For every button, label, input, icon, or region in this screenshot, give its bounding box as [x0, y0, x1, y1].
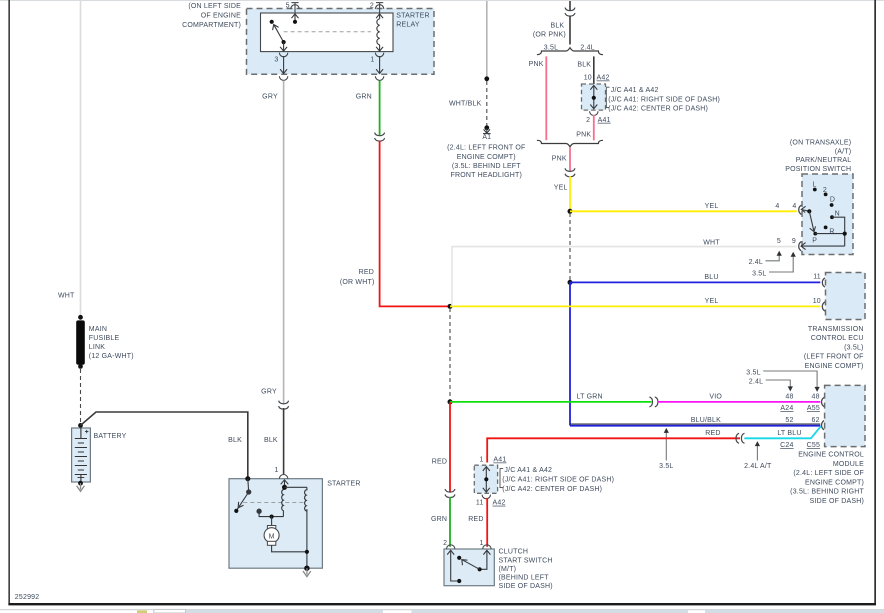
- PNP wiper blade: [809, 211, 815, 231]
- svg-text:9: 9: [792, 238, 796, 245]
- node starter motor tap: [270, 515, 274, 519]
- wire BLU to TCM pin11: [570, 281, 820, 283]
- wire BLU vertical: [569, 282, 571, 425]
- merge brace: [537, 140, 603, 147]
- wire PNK below J/C: [593, 115, 595, 140]
- bottom strip icon: [137, 610, 147, 613]
- PNP contact 2: [824, 193, 828, 197]
- clutch start switch box: [444, 549, 494, 586]
- label J/C A41 & A42 bottom text: [500, 468, 503, 487]
- svg-text:(3.5L: BEHIND RIGHT: (3.5L: BEHIND RIGHT: [790, 489, 864, 496]
- svg-text:MODULE: MODULE: [833, 461, 864, 468]
- node starter coils junction: [282, 485, 287, 490]
- PNP pin9 arrow: [801, 243, 806, 250]
- svg-text:GRY: GRY: [261, 389, 277, 396]
- svg-text:(M/T): (M/T): [499, 566, 517, 573]
- svg-text:YEL: YEL: [705, 298, 719, 305]
- PNP internal wiring N to pin9: [802, 217, 845, 246]
- svg-text:2.4L: 2.4L: [580, 44, 594, 51]
- starter hold-in coil: [305, 487, 307, 511]
- clutch pin1 internal path: [482, 550, 491, 569]
- svg-text:(12 GA-WHT): (12 GA-WHT): [89, 353, 134, 360]
- svg-text:10: 10: [584, 75, 592, 82]
- svg-text:VIO: VIO: [709, 394, 722, 401]
- svg-text:GRY: GRY: [262, 94, 278, 101]
- relay pin1 below-box bracket: [375, 76, 383, 80]
- svg-text:A1: A1: [482, 134, 491, 141]
- battery: [72, 427, 91, 482]
- svg-text:GRN: GRN: [431, 516, 447, 523]
- svg-text:SIDE OF DASH): SIDE OF DASH): [810, 498, 864, 505]
- svg-text:(2.4L: LEFT SIDE OF: (2.4L: LEFT SIDE OF: [793, 470, 864, 477]
- svg-text:L: L: [813, 181, 817, 188]
- relay pin3 internal arrow: [280, 42, 287, 51]
- connector RED-GRN inline: [445, 489, 455, 498]
- wire GRY relay pin3 down: [283, 81, 285, 405]
- wire RED relay to splice: [380, 141, 448, 307]
- ground battery: [77, 483, 85, 491]
- svg-text:(J/C A41: RIGHT SIDE OF DASH): (J/C A41: RIGHT SIDE OF DASH): [502, 476, 614, 483]
- svg-text:C55: C55: [807, 442, 820, 449]
- J/C A42 exit bracket: [590, 111, 598, 115]
- clutch entry arc pin2: [447, 545, 455, 549]
- svg-text:N: N: [835, 211, 840, 218]
- svg-text:(J/C A41: RIGHT SIDE OF DASH): (J/C A41: RIGHT SIDE OF DASH): [608, 96, 720, 103]
- relay coil: [377, 19, 380, 45]
- node starter ground: [304, 566, 309, 571]
- ECM pin52/62 bracket: [822, 421, 825, 430]
- relay pin3 exit arrow: [280, 56, 287, 74]
- svg-text:PNK: PNK: [576, 131, 591, 138]
- node RED-YEL splice: [448, 304, 453, 309]
- svg-text:1: 1: [275, 467, 279, 474]
- wire PNK merged: [569, 147, 571, 171]
- svg-text:P: P: [812, 238, 817, 245]
- svg-text:RED: RED: [432, 459, 447, 466]
- svg-text:TRANSMISSION: TRANSMISSION: [808, 326, 864, 333]
- svg-text:252992: 252992: [15, 594, 40, 601]
- bottom strip bar 3: [705, 610, 884, 613]
- PNP wiper pivot: [807, 209, 811, 213]
- svg-text:BLK: BLK: [264, 437, 278, 444]
- svg-text:(OR PNK): (OR PNK): [533, 32, 566, 39]
- svg-text:GRN: GRN: [356, 94, 372, 101]
- wire LT BLU 2.4L A/T: [744, 426, 821, 438]
- svg-text:LT GRN: LT GRN: [577, 394, 603, 401]
- clutch pin2 internal path: [447, 550, 457, 581]
- frame top hairline: [0, 0, 884, 1]
- svg-text:M: M: [269, 534, 275, 541]
- svg-text:YEL: YEL: [554, 185, 568, 192]
- svg-text:ENGINE COMPT): ENGINE COMPT): [457, 154, 516, 161]
- wire WHT/BLK: [486, 1, 488, 77]
- wire BLK battery to starter: [81, 412, 248, 477]
- svg-text:2.4L: 2.4L: [749, 259, 763, 266]
- clutch contact upper: [457, 556, 461, 560]
- wire GRN relay pin1 down: [379, 81, 381, 136]
- TCM pin10 bracket: [822, 302, 825, 311]
- svg-text:WHT/BLK: WHT/BLK: [449, 100, 482, 107]
- svg-text:J/C A41 & A42: J/C A41 & A42: [611, 87, 659, 94]
- svg-text:5: 5: [286, 3, 290, 10]
- svg-text:1: 1: [480, 457, 484, 464]
- svg-text:4: 4: [792, 203, 796, 210]
- svg-text:A41: A41: [598, 117, 611, 124]
- svg-text:RELAY: RELAY: [396, 22, 420, 29]
- svg-text:(ON LEFT SIDE: (ON LEFT SIDE: [188, 3, 241, 10]
- node fusible link top: [78, 315, 83, 320]
- connector BLK top inline: [565, 8, 575, 17]
- wire RED below J/C A41: [486, 498, 488, 547]
- fusible link F1: [76, 320, 85, 364]
- svg-text:52: 52: [785, 417, 793, 424]
- svg-text:1: 1: [370, 57, 374, 64]
- relay pin5 contact: [293, 20, 297, 24]
- node PNP internal junction: [843, 232, 847, 236]
- svg-text:2: 2: [443, 540, 447, 547]
- svg-text:2.4L: 2.4L: [749, 378, 763, 385]
- node LT GRN junction: [448, 399, 453, 404]
- wire RED to clutch circuit: [487, 438, 740, 462]
- node A1: [484, 125, 489, 130]
- starter mechanical link dashed: [243, 502, 306, 504]
- relay pin1 exit bracket: [375, 53, 383, 57]
- relay switch contact: [270, 20, 274, 24]
- svg-text:(3.5L: BEHIND LEFT: (3.5L: BEHIND LEFT: [452, 163, 521, 170]
- PNP contact R: [824, 226, 828, 230]
- starter pull-in coil entry arrow: [281, 480, 289, 490]
- wire GRN to clutch switch: [449, 497, 451, 547]
- node WHT/BLK junction: [484, 76, 489, 81]
- wire LT GRN: [450, 401, 652, 403]
- svg-text:(2.4L: LEFT FRONT OF: (2.4L: LEFT FRONT OF: [447, 145, 525, 152]
- svg-text:R: R: [829, 228, 834, 235]
- svg-text:(J/C A42: CENTER OF DASH): (J/C A42: CENTER OF DASH): [608, 106, 708, 113]
- svg-text:ENGINE COMPT): ENGINE COMPT): [805, 363, 864, 370]
- transmission control ECU box: [826, 273, 866, 320]
- svg-text:A55: A55: [807, 405, 820, 412]
- wire YEL to TCM pin10: [450, 305, 820, 307]
- svg-text:ENGINE CONTROL: ENGINE CONTROL: [798, 452, 864, 459]
- clutch switch pivot: [478, 567, 482, 571]
- svg-text:2: 2: [370, 3, 374, 10]
- svg-text:PNK: PNK: [552, 155, 567, 162]
- svg-text:1: 1: [480, 540, 484, 547]
- svg-text:MAIN: MAIN: [89, 326, 107, 333]
- clutch switch blade: [462, 560, 480, 570]
- svg-text:LINK: LINK: [89, 344, 105, 351]
- starter solenoid contact: [257, 509, 283, 516]
- svg-text:WHT: WHT: [58, 293, 75, 300]
- svg-text:48: 48: [812, 394, 820, 401]
- svg-text:5: 5: [777, 238, 781, 245]
- frame left border: [8, 0, 10, 605]
- wire WHT to PNP pin9: [452, 247, 797, 307]
- svg-text:CONTROL ECU: CONTROL ECU: [811, 335, 864, 342]
- starter ground path: [306, 509, 308, 568]
- svg-text:A42: A42: [493, 500, 506, 507]
- svg-text:STARTER: STARTER: [396, 13, 429, 20]
- wire YEL to PNP pin4: [570, 210, 797, 212]
- ECM pin48 bracket: [822, 397, 825, 406]
- J/C A42 internal: [590, 85, 597, 108]
- wire BLU/BLK to ECM: [570, 425, 820, 427]
- node battery negative: [78, 481, 83, 486]
- J/C A41 exit bracket: [482, 495, 490, 499]
- svg-text:START SWITCH: START SWITCH: [499, 557, 553, 564]
- svg-text:(OR WHT): (OR WHT): [340, 279, 375, 286]
- svg-text:(3.5L): (3.5L): [844, 344, 864, 351]
- relay switch blade: [273, 25, 284, 43]
- PNP contact L: [813, 188, 817, 192]
- junction connector J/C A42 box: [582, 84, 606, 110]
- svg-text:3: 3: [274, 57, 278, 64]
- svg-text:BLK: BLK: [577, 62, 591, 69]
- starter motor M: [264, 517, 307, 552]
- starter relay outer box: [247, 9, 435, 75]
- svg-text:LT BLU: LT BLU: [777, 430, 801, 437]
- relay pin2 internal arrow: [376, 14, 383, 19]
- node BLU junction: [568, 280, 573, 285]
- svg-text:(LEFT FRONT OF: (LEFT FRONT OF: [804, 354, 864, 361]
- terminal A1 symbol: [483, 128, 491, 134]
- svg-text:C24: C24: [780, 442, 793, 449]
- relay pin5 internal arrow: [292, 14, 299, 22]
- clutch entry arc pin1: [483, 545, 491, 549]
- svg-text:3.5L: 3.5L: [659, 463, 673, 470]
- svg-text:(BEHIND LEFT: (BEHIND LEFT: [499, 575, 550, 582]
- PNP contact D: [830, 203, 834, 207]
- wire dashed fusible link to battery: [80, 369, 82, 423]
- PNP pin4 wiper arrow: [801, 206, 809, 212]
- split brace 3.5L/2.4L: [537, 48, 603, 55]
- relay pin3 exit bracket: [279, 53, 287, 57]
- pin 2 stub: [375, 3, 383, 13]
- pin 5 stub: [291, 3, 299, 13]
- relay pin1 internal arrow: [376, 45, 383, 51]
- relay switch pivot: [282, 40, 286, 44]
- frame right border: [874, 0, 876, 605]
- svg-text:11: 11: [476, 500, 484, 507]
- wire dashed YEL to BLU junction: [569, 213, 571, 280]
- starter entry arc pin1: [279, 475, 287, 479]
- svg-text:PARK/NEUTRAL: PARK/NEUTRAL: [796, 157, 852, 164]
- svg-text:(A/T): (A/T): [835, 148, 852, 155]
- svg-text:4: 4: [775, 203, 779, 210]
- bottom strip bar 1: [186, 610, 383, 613]
- svg-text:10: 10: [813, 298, 821, 305]
- node J/C A42: [592, 96, 596, 100]
- svg-text:PNK: PNK: [529, 61, 544, 68]
- starter relay inner box: [261, 13, 394, 52]
- relay pin1 exit arrow: [376, 56, 383, 74]
- relay mechanical link dashed: [284, 31, 371, 33]
- svg-text:BATTERY: BATTERY: [94, 433, 127, 440]
- connector RED-LT BLU inline: [736, 433, 745, 443]
- relay pin3 below-box bracket: [279, 76, 287, 80]
- connector PNK-YEL inline: [565, 168, 575, 177]
- svg-text:YEL: YEL: [705, 203, 719, 210]
- park/neutral position switch box: [802, 174, 853, 255]
- svg-text:62: 62: [812, 417, 820, 424]
- wire dashed WHT/BLK to A1: [486, 81, 488, 126]
- TCM pin11 bracket: [822, 278, 825, 287]
- svg-text:STARTER: STARTER: [327, 481, 360, 488]
- connector LT GRN-VIO inline: [649, 397, 657, 407]
- svg-text:3.5L: 3.5L: [746, 369, 760, 376]
- starter box: [229, 479, 322, 569]
- svg-text:A42: A42: [597, 75, 610, 82]
- node YEL junction: [568, 209, 573, 214]
- svg-text:BLU/BLK: BLU/BLK: [691, 417, 721, 424]
- bottom strip bar 2: [412, 610, 689, 613]
- wire YEL vertical: [569, 176, 571, 211]
- connector GRY-BLK inline: [279, 401, 289, 410]
- PNP pin4 bracket: [799, 205, 802, 214]
- J/C A41 internal: [483, 467, 490, 493]
- svg-text:3.5L: 3.5L: [544, 44, 558, 51]
- starter pull-in coil: [282, 490, 285, 517]
- svg-text:RED: RED: [705, 430, 720, 437]
- svg-text:SIDE OF DASH): SIDE OF DASH): [499, 583, 553, 590]
- clutch contact lower: [457, 579, 461, 583]
- svg-text:BLU: BLU: [704, 274, 718, 281]
- node starter battery junction: [245, 476, 250, 481]
- bottom strip hairline: [0, 609, 884, 610]
- svg-text:POSITION SWITCH: POSITION SWITCH: [785, 166, 851, 173]
- svg-text:(ON TRANSAXLE): (ON TRANSAXLE): [790, 140, 851, 147]
- wire BLK relay to starter: [283, 408, 285, 475]
- svg-text:FUSIBLE: FUSIBLE: [89, 335, 120, 342]
- svg-text:48: 48: [785, 394, 793, 401]
- wire PNK 3.5L branch: [545, 56, 547, 140]
- ground starter: [303, 568, 311, 576]
- svg-text:D: D: [830, 196, 835, 203]
- wire BLK OR PNK: [569, 16, 571, 45]
- svg-text:RED: RED: [359, 269, 374, 276]
- PNP contact P: [813, 232, 817, 236]
- PNP contact N: [830, 215, 834, 219]
- node starter motor-coil junction: [305, 550, 309, 554]
- wire dashed splice down to LT GRN junction: [449, 308, 451, 400]
- svg-text:A41: A41: [493, 457, 506, 464]
- svg-text:2: 2: [823, 187, 827, 194]
- svg-text:RED: RED: [468, 516, 483, 523]
- svg-text:ENGINE COMPT): ENGINE COMPT): [805, 479, 864, 486]
- svg-text:WHT: WHT: [703, 240, 720, 247]
- svg-text:J/C A41 & A42: J/C A41 & A42: [504, 467, 552, 474]
- node J/C A41: [484, 477, 488, 481]
- svg-text:(J/C A42: CENTER OF DASH): (J/C A42: CENTER OF DASH): [502, 486, 602, 493]
- node battery positive: [78, 423, 83, 428]
- wire VIO to ECM pin48: [657, 401, 820, 403]
- svg-text:COMPARTMENT): COMPARTMENT): [182, 22, 241, 29]
- svg-text:11: 11: [813, 273, 821, 280]
- label J/C A41 & A42 text block: [606, 87, 609, 107]
- wire RED M/T branch: [449, 402, 451, 492]
- svg-text:CLUTCH: CLUTCH: [499, 549, 529, 556]
- wire BLK OR PNK top: [569, 1, 571, 11]
- starter coil bridge: [285, 486, 307, 488]
- frame bottom border: [8, 603, 876, 605]
- bottom strip tab: [154, 609, 186, 613]
- svg-text:2.4L A/T: 2.4L A/T: [744, 463, 772, 470]
- engine control module box: [825, 385, 865, 446]
- wire WHT battery feed: [80, 1, 82, 316]
- svg-text:A24: A24: [780, 405, 793, 412]
- svg-text:3.5L: 3.5L: [752, 270, 766, 277]
- connector GRN-RED inline: [375, 133, 385, 142]
- svg-text:2: 2: [586, 117, 590, 124]
- node fusible link bottom: [78, 364, 83, 369]
- wire BLK 2.4L branch: [593, 56, 595, 85]
- starter internal switch: [234, 479, 251, 513]
- svg-text:BLK: BLK: [550, 23, 564, 30]
- PNP pin9 bracket: [799, 242, 802, 251]
- svg-text:OF ENGINE: OF ENGINE: [201, 13, 241, 20]
- svg-text:FRONT HEADLIGHT): FRONT HEADLIGHT): [451, 172, 523, 179]
- svg-text:BLK: BLK: [228, 437, 242, 444]
- junction connector J/C A41 box: [474, 465, 497, 493]
